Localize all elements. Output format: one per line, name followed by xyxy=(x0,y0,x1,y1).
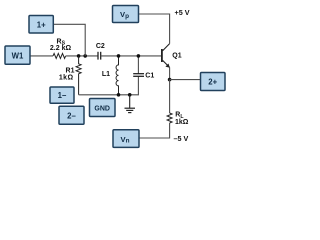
inductor L1 xyxy=(116,56,118,95)
svg-text:L1: L1 xyxy=(102,71,110,78)
svg-text:2–: 2– xyxy=(67,112,76,121)
capacitor C2 xyxy=(98,52,101,60)
svg-text:1kΩ: 1kΩ xyxy=(175,119,189,126)
svg-text:C2: C2 xyxy=(96,43,105,50)
svg-text:C1: C1 xyxy=(145,73,154,80)
svg-text:2.2 kΩ: 2.2 kΩ xyxy=(50,45,72,52)
svg-text:+5 V: +5 V xyxy=(175,8,190,17)
junction output node xyxy=(168,78,172,82)
box 1- xyxy=(50,87,74,103)
transistor Q1 xyxy=(162,44,170,68)
junction L1 top xyxy=(117,54,121,58)
capacitor C1 xyxy=(133,56,144,76)
svg-text:2+: 2+ xyxy=(208,78,217,87)
box W1 xyxy=(5,46,30,64)
resistor R1 xyxy=(76,56,81,95)
svg-text:1–: 1– xyxy=(58,91,67,100)
ground xyxy=(125,95,136,113)
junction node 1+ xyxy=(83,54,87,58)
wire node to RL xyxy=(169,80,171,113)
svg-text:–5 V: –5 V xyxy=(174,134,189,143)
box 2- xyxy=(59,106,84,124)
svg-text:R1: R1 xyxy=(66,67,75,74)
junction C1 top xyxy=(137,54,141,58)
svg-text:W1: W1 xyxy=(12,51,24,60)
svg-text:GND: GND xyxy=(94,106,110,113)
box GND xyxy=(90,99,116,117)
box Vn xyxy=(113,130,139,148)
junction ground stem xyxy=(128,93,132,97)
wire W1 to RS xyxy=(30,55,53,57)
wire 1+ to node xyxy=(53,24,85,56)
wire Vp to collector xyxy=(139,14,170,44)
svg-text:Q1: Q1 xyxy=(172,52,181,59)
svg-text:1+: 1+ xyxy=(37,20,46,29)
wire RS to C2 xyxy=(66,55,98,57)
resistor RS xyxy=(53,53,66,58)
box Vp xyxy=(113,6,139,23)
wire RL to Vn xyxy=(139,123,169,138)
wire emitter to output node xyxy=(169,67,171,79)
box 1+ xyxy=(29,16,53,34)
wire C2 to Q1 base xyxy=(101,55,162,57)
svg-text:1kΩ: 1kΩ xyxy=(59,75,74,82)
box 2+ xyxy=(201,73,226,91)
wire ground rail xyxy=(79,76,139,95)
junction node R1 top xyxy=(77,54,81,58)
junction L1 bottom xyxy=(117,93,121,97)
wire node to 2+ xyxy=(170,79,201,81)
resistor RL xyxy=(167,113,172,123)
